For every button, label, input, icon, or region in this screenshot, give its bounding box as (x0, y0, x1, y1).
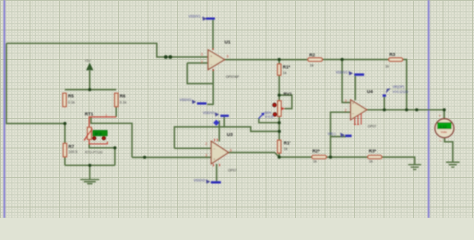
power +5V arrow (85, 59, 93, 70)
wire VROP stub (383, 97, 385, 110)
sheet border right (428, 0, 430, 218)
power terminal VDD/V1 (U1 top) (189, 15, 215, 21)
svg-text:RT1: RT1 (85, 111, 94, 116)
svg-text:V=0.5: V=0.5 (265, 115, 274, 119)
svg-text:3: 3 (201, 53, 203, 57)
wire U1 top power (212, 20, 214, 50)
svg-text:1k: 1k (385, 65, 389, 69)
wire RT1 bottom to lower bus (89, 144, 115, 165)
svg-text:VSS/V2: VSS/V2 (194, 179, 206, 183)
wire U3 top power (218, 121, 220, 142)
RV1 percent label (259, 111, 274, 119)
svg-text:R6: R6 (120, 94, 126, 99)
power terminal VR(OP) (383, 85, 409, 97)
resistor R3 (385, 52, 402, 69)
svg-text:RTD-PT100: RTD-PT100 (85, 151, 103, 155)
svg-text:2: 2 (201, 60, 203, 64)
thermistor RT1 RTD-PT100 (84, 111, 116, 154)
svg-text:R5: R5 (68, 94, 74, 99)
power terminal VSS/V2 (U1 bottom) (180, 98, 207, 104)
ground below meter (446, 162, 460, 167)
svg-text:2: 2 (205, 142, 207, 146)
op-amp U1 (201, 40, 240, 80)
svg-text:−: − (213, 147, 215, 151)
svg-text:VDD/V1: VDD/V1 (203, 111, 215, 115)
svg-text:V=0.12126: V=0.12126 (393, 90, 409, 94)
svg-text:6: 6 (230, 148, 232, 152)
svg-text:1k: 1k (284, 147, 288, 151)
ground below bridge (80, 165, 99, 183)
svg-text:+5V: +5V (85, 59, 92, 63)
wire U3 VDD bar to feedback (223, 117, 225, 127)
wire top to U1 pin3 (6, 43, 207, 57)
svg-text:OP07AP: OP07AP (226, 75, 240, 79)
wire U3 pin3 (132, 156, 211, 158)
voltmeter (435, 113, 454, 143)
resistor R2* (312, 148, 326, 163)
wire U3 bottom power (216, 164, 218, 182)
wire U4 pin2 drop (331, 112, 351, 157)
svg-text:−: − (352, 112, 354, 116)
svg-text:0.1k: 0.1k (120, 101, 127, 105)
svg-text:R1′: R1′ (284, 140, 291, 145)
power terminal VDD/V1 (U4 top) (336, 70, 364, 75)
wire RV1 percent tap (259, 118, 279, 122)
svg-text:1k: 1k (313, 160, 317, 164)
wire U3 output diagonal (229, 153, 280, 158)
resistor R7 (63, 143, 77, 156)
svg-text:R2*: R2* (312, 148, 320, 153)
resistor R3* (368, 148, 382, 163)
wire left vertical (6, 43, 65, 123)
wire bottom bus right (279, 157, 415, 165)
svg-text:6: 6 (227, 55, 229, 59)
wire U3 feedback to RV1 node (174, 127, 279, 148)
resistor R5 (63, 93, 75, 106)
resistor R1_ (278, 140, 291, 153)
wire U4 pin3 feed (342, 60, 350, 103)
svg-text:1k: 1k (283, 71, 287, 75)
svg-text:OP07: OP07 (368, 124, 377, 128)
svg-text:VDD/V1: VDD/V1 (189, 15, 201, 19)
svg-text:3: 3 (345, 99, 347, 103)
wire U4 output bus to meter (367, 109, 444, 111)
svg-text:R1*: R1* (283, 65, 291, 70)
wire bridge top (65, 89, 116, 91)
wire R7 leads (64, 124, 66, 166)
wire RV1 wiper loop (279, 95, 292, 109)
svg-text:R7: R7 (68, 144, 74, 149)
svg-text:U1: U1 (225, 40, 231, 45)
svg-text:−: − (210, 63, 212, 67)
svg-text:1k: 1k (310, 63, 314, 67)
wire +5V stem (89, 71, 91, 90)
ground right of R3" (408, 165, 421, 170)
svg-text:OP07: OP07 (228, 168, 237, 172)
resistor R6 (115, 93, 127, 106)
svg-text:100.5: 100.5 (68, 150, 77, 154)
wire U3 pin2 (174, 147, 211, 149)
svg-text:2: 2 (345, 108, 347, 112)
wire lower bridge bus (65, 164, 115, 166)
op-amp U3 (205, 132, 236, 172)
wire RV1 column (278, 60, 280, 158)
wire U1 output bus (225, 60, 407, 110)
svg-text:1k: 1k (369, 160, 373, 164)
svg-text:+: + (352, 102, 354, 106)
power terminal VSS/V2 (U3 bottom) (194, 179, 221, 184)
svg-text:+: + (210, 55, 212, 59)
power terminal VR(-) (U4 pin2) (328, 132, 352, 138)
wire bridge node B to U3 (91, 118, 132, 158)
power terminal VDD/V1 (U3 top) (203, 111, 229, 126)
sheet border left (4, 0, 6, 218)
wire U1 pin2 feedback to VSS (187, 63, 213, 104)
svg-text:R2: R2 (309, 52, 315, 57)
resistor R2 (308, 52, 322, 67)
svg-text:37.0: 37.0 (95, 132, 102, 136)
svg-text:RV1: RV1 (284, 92, 293, 97)
wire meter top pin (443, 110, 445, 119)
svg-text:U3: U3 (227, 132, 233, 137)
wire R6 bottom lead (115, 107, 117, 117)
svg-text:+: + (213, 157, 215, 161)
op-amp U4 (345, 89, 377, 128)
node junction dots (63, 55, 446, 167)
potentiometer RV1 (273, 92, 293, 117)
svg-text:VSS/V2: VSS/V2 (180, 98, 192, 102)
svg-text:U4: U4 (367, 89, 373, 94)
svg-text:3: 3 (205, 154, 207, 158)
svg-text:0.12: 0.12 (439, 125, 446, 129)
svg-text:VR(OP): VR(OP) (393, 85, 405, 89)
resistor R1* (278, 64, 291, 75)
wire U4 top power (354, 76, 356, 100)
svg-text:VDD/V1: VDD/V1 (336, 70, 348, 74)
wire meter bottom to ground (445, 137, 453, 162)
svg-text:0.1k: 0.1k (68, 101, 75, 105)
svg-text:R3: R3 (389, 52, 395, 57)
svg-text:R3*: R3* (369, 148, 377, 153)
svg-text:Volts: Volts (441, 130, 448, 134)
svg-text:VR(-): VR(-) (328, 132, 336, 136)
